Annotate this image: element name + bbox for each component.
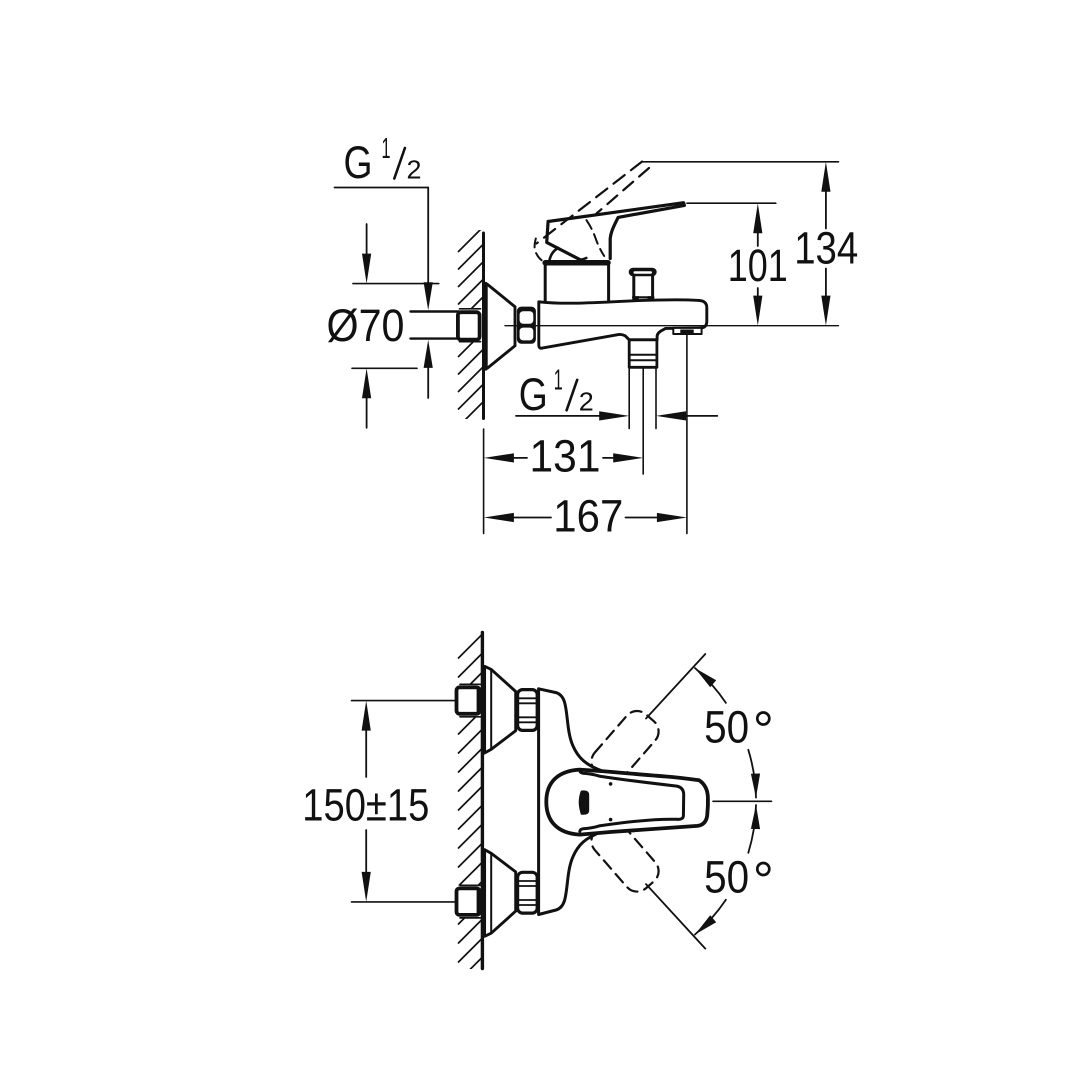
cartridge block under handle [545,265,608,301]
upper union hex nut (front view) [518,690,538,731]
union hex nut (top view) [517,307,536,344]
svg-text:50: 50 [704,851,749,902]
dots on handle [609,782,613,786]
wall (top view) [482,233,485,419]
lower 50° leader line [646,884,705,949]
centerline (top view axis) [505,325,839,327]
wall hatching (front view) [459,634,483,1000]
wall extension line below [483,429,485,534]
lower union hex nut (front view) [518,872,538,913]
svg-text:167: 167 [553,490,623,541]
svg-text:Ø70: Ø70 [327,300,405,351]
G1/2 leader: under-text line, vertical, arrows at pipe [335,187,429,189]
aerator at spout tip (top view) [673,328,701,334]
svg-text:50: 50 [704,701,749,752]
lower escutcheon cone (front view) [485,850,516,937]
svg-text:2: 2 [407,155,422,185]
escutcheon cone (top view) [488,285,515,369]
lower 50° arc + arrows [748,805,756,853]
131 dimension [530,431,601,482]
faucet body (front view) [539,689,603,915]
front view centerline [713,800,772,802]
svg-text:G: G [519,369,548,420]
G 1/2 label (wall side) [344,133,422,188]
svg-text:150±15: 150±15 [302,780,429,831]
150 extension lines [352,700,458,702]
upper escutcheon cone (front view) [485,666,516,753]
raised handle left edge (dashed arc) [535,239,545,263]
dome arc under handle [549,248,558,262]
svg-text:101: 101 [728,240,788,291]
dashed rotated handle (lower, 50° down) [586,815,664,897]
logo blob on handle [579,790,590,814]
wall (front view) [481,633,484,969]
lower square wall nut (front view) [460,884,481,886]
handle nose inner window [580,771,684,832]
101 dimension (right) [728,240,788,291]
dashed rotated handle (upper, 50° up) [586,705,664,787]
diverter knob [629,268,657,301]
square wall nut (top view) [458,312,480,339]
supply pipe (top view) [411,310,460,312]
G1/2 hose dimension line [516,415,600,417]
raised handle position (dashed) line 2 [597,168,650,214]
svg-text:G: G [344,137,373,188]
handle nose (front view, outer) [546,770,708,835]
wall hatching (top view) [459,227,484,445]
upper square wall nut (front view) [460,683,481,685]
svg-text:134: 134 [794,222,858,273]
escutcheon flange at wall (top view) [484,284,488,369]
svg-text:131: 131 [530,431,601,482]
upper 50° leader line [646,654,705,719]
G 1/2 label (hose) [519,364,594,420]
lever handle (top view, solid) [548,203,684,259]
pipe flange lines behind square nut [460,308,481,310]
svg-text:1: 1 [382,133,391,165]
hidden dome edge (dashed) [587,220,605,256]
hose extension lines [628,369,630,429]
shower hose connector under spout [629,340,657,368]
150±15 dimension [302,780,429,831]
134 dimension (far right) [794,222,858,273]
spout outlet extension line [686,335,688,534]
handle bottom dark band [545,260,608,266]
raised handle position (dashed) line 1 [537,162,643,244]
faucet body (top view) [539,300,707,348]
167 dimension [553,490,623,541]
svg-text:1: 1 [554,364,563,396]
upper 50° arc + arrows [695,668,726,703]
svg-text:2: 2 [579,386,594,416]
Ø70 dimension [327,300,405,351]
